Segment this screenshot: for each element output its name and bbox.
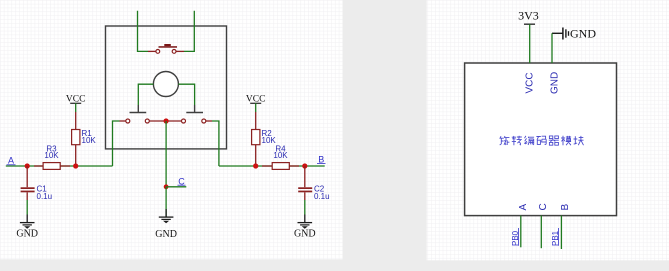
encoder shaft circle <box>153 72 178 97</box>
wire C2 to ground <box>304 200 306 215</box>
module title text <box>499 136 583 145</box>
power port 3V3 <box>518 9 539 63</box>
wire pin A down <box>520 216 522 248</box>
wire center to ground <box>165 187 167 217</box>
svg-text:B: B <box>560 204 571 211</box>
junction at C2 <box>302 163 307 168</box>
resistor R1 <box>72 112 97 166</box>
right schematic sheet background <box>427 0 669 260</box>
switch SW right pin lead <box>176 50 184 52</box>
junction below R2 <box>253 163 258 168</box>
wire pin B down <box>560 216 562 249</box>
junction below R1 <box>73 163 78 168</box>
wire C1 to ground <box>26 200 28 215</box>
net label B <box>317 154 326 164</box>
capacitor C1 <box>21 166 52 201</box>
svg-text:C: C <box>538 203 549 210</box>
svg-text:B: B <box>318 154 324 164</box>
terminal circle 4 <box>202 119 206 123</box>
wire left drop from terminals <box>113 121 120 166</box>
module box U1 <box>465 63 617 216</box>
svg-text:10K: 10K <box>44 151 59 160</box>
ground GND right <box>294 215 316 240</box>
wire circle-left <box>138 84 153 105</box>
wire right drop from terminals <box>212 121 219 166</box>
power port VCC left <box>66 94 86 112</box>
left wiper contact T <box>130 105 147 113</box>
terminal circle 1 <box>126 119 130 123</box>
svg-text:10K: 10K <box>273 151 288 160</box>
wire center drop from terminals <box>165 121 167 187</box>
svg-text:A: A <box>518 204 529 211</box>
ground GND center <box>155 209 177 240</box>
resistor R2 <box>252 112 277 166</box>
ground GND left <box>16 215 38 240</box>
svg-text:A: A <box>8 156 14 166</box>
net label C <box>178 176 186 186</box>
wire C stub <box>166 186 186 188</box>
switch SW left pin lead <box>148 50 156 52</box>
power port GND top <box>552 27 596 63</box>
terminal circle 2 <box>145 119 149 123</box>
svg-text:10K: 10K <box>262 136 277 145</box>
svg-text:10K: 10K <box>82 136 97 145</box>
net label A <box>7 156 16 166</box>
left schematic sheet background <box>0 0 343 259</box>
right wiper contact T <box>186 105 203 113</box>
switch SW pushbutton symbol <box>156 44 177 53</box>
wire row A (left) <box>6 165 113 167</box>
power port VCC right <box>246 94 266 112</box>
net label PB0 <box>511 228 520 246</box>
svg-text:3V3: 3V3 <box>518 9 539 23</box>
wire pin C down <box>540 216 542 249</box>
wire row B (right) <box>219 165 325 167</box>
resistor R3 <box>34 144 70 169</box>
svg-text:GND: GND <box>570 27 596 41</box>
terminal circle 3 <box>182 119 186 123</box>
svg-text:GND: GND <box>16 229 38 240</box>
svg-text:GND: GND <box>294 229 316 240</box>
wire circle-right <box>178 84 194 105</box>
svg-text:GND: GND <box>550 72 561 94</box>
wire top-left vertical <box>138 11 149 52</box>
terminal row leads <box>120 120 213 122</box>
junction at C stub <box>164 184 169 189</box>
junction at C1 <box>25 163 30 168</box>
junction center terminal <box>164 118 169 123</box>
svg-text:VCC: VCC <box>525 72 536 93</box>
net label PB1 <box>551 228 560 246</box>
svg-text:0.1u: 0.1u <box>314 192 330 201</box>
resistor R4 <box>262 144 299 169</box>
capacitor C2 <box>298 166 329 201</box>
encoder component outline box <box>106 26 227 149</box>
svg-text:0.1u: 0.1u <box>37 192 53 201</box>
svg-text:GND: GND <box>155 229 177 240</box>
wire top-right vertical <box>184 11 194 52</box>
